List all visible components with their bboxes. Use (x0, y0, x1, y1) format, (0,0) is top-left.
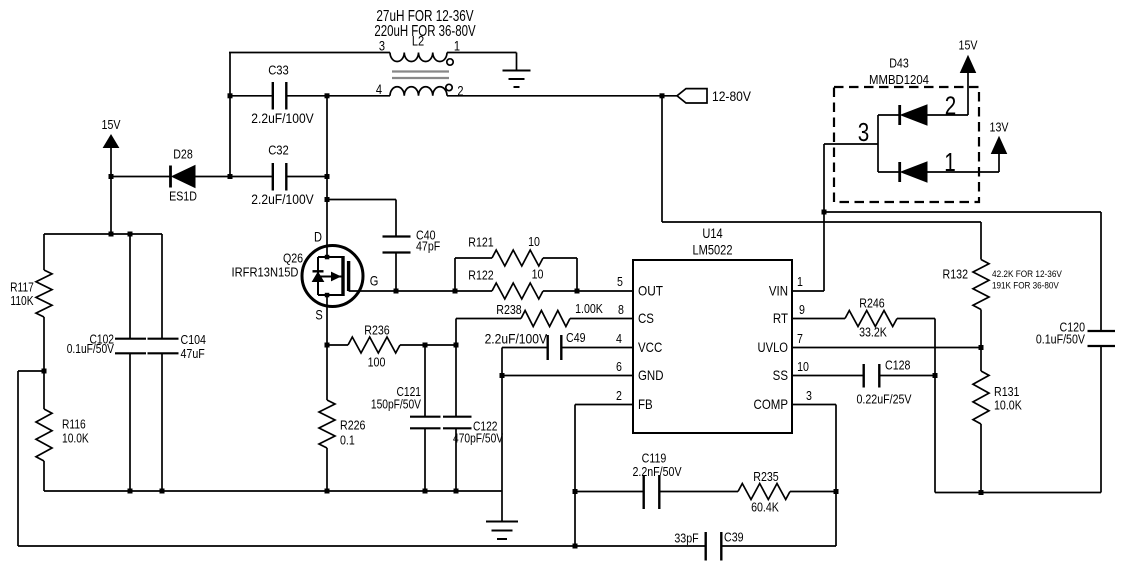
svg-text:OUT: OUT (638, 282, 663, 298)
wire: FB pin line (575, 404, 633, 406)
svg-text:0.1: 0.1 (340, 432, 355, 447)
svg-text:100: 100 (368, 354, 386, 369)
svg-text:2.2uF/100V: 2.2uF/100V (251, 191, 314, 207)
svg-text:6: 6 (616, 359, 622, 374)
svg-text:110K: 110K (10, 295, 34, 308)
bottom right ground rail (935, 492, 1101, 494)
svg-text:R238: R238 (496, 302, 522, 317)
wire: RT line (792, 318, 845, 320)
svg-text:RT: RT (773, 310, 788, 326)
D43 lower diode (pin 1) (878, 171, 900, 173)
dual diode D43 MMBD1204 dashed box (834, 87, 979, 202)
capacitor C121 150pF/50V (424, 345, 426, 416)
svg-text:0.22uF/25V: 0.22uF/25V (856, 391, 911, 406)
D43 upper diode (pin 2) (878, 114, 900, 116)
capacitor C104 47uF (161, 234, 163, 338)
wire: L2 pin2 to 12-80V tag (447, 95, 677, 97)
capacitor C128 0.22uF/25V (863, 364, 865, 388)
svg-text:60.4K: 60.4K (751, 499, 779, 514)
left top rail (44, 233, 162, 235)
svg-text:2.2uF/100V: 2.2uF/100V (485, 331, 548, 347)
svg-text:S: S (315, 307, 322, 322)
svg-text:2.2nF/50V: 2.2nF/50V (632, 464, 681, 479)
power symbol 15V (left) (104, 135, 119, 148)
capacitor C120 0.1uF/50V (1088, 330, 1116, 332)
svg-text:191K FOR 36-80V: 191K FOR 36-80V (992, 280, 1059, 291)
resistor R132 (980, 222, 982, 260)
wire: D43 pin 3 to VIN (824, 143, 878, 145)
svg-text:VCC: VCC (638, 339, 662, 355)
resistor R116 10.0K (36, 409, 52, 461)
svg-text:R121: R121 (468, 234, 494, 249)
svg-text:220uH FOR 36-80V: 220uH FOR 36-80V (374, 22, 476, 39)
svg-text:10: 10 (528, 234, 540, 249)
svg-text:CS: CS (638, 310, 654, 326)
L2 core lines (392, 70, 449, 72)
svg-text:0.1uF/50V: 0.1uF/50V (1036, 331, 1085, 346)
resistor R235 60.4K (738, 484, 790, 500)
svg-text:7: 7 (797, 331, 803, 346)
svg-text:C33: C33 (268, 63, 289, 78)
svg-text:GND: GND (638, 367, 664, 383)
svg-text:2.2uF/100V: 2.2uF/100V (251, 110, 314, 126)
svg-text:8: 8 (618, 302, 624, 317)
wire: gate line to OUT (349, 290, 492, 292)
svg-text:12-80V: 12-80V (712, 88, 751, 104)
svg-text:C39: C39 (724, 529, 744, 544)
svg-text:150pF/50V: 150pF/50V (371, 399, 421, 412)
svg-text:R117: R117 (10, 282, 34, 295)
ground symbol (main) (501, 491, 503, 522)
L2 phase dot pin 1 (447, 59, 453, 65)
svg-text:13V: 13V (990, 119, 1009, 134)
wire: SS line (792, 375, 863, 377)
svg-text:1: 1 (454, 38, 460, 53)
svg-text:10: 10 (797, 359, 809, 374)
svg-text:33.2K: 33.2K (859, 324, 887, 339)
svg-text:UVLO: UVLO (758, 340, 789, 355)
resistor R226 0.1 (319, 400, 335, 448)
svg-text:C32: C32 (268, 143, 289, 158)
svg-text:3: 3 (379, 38, 385, 53)
svg-text:C49: C49 (566, 330, 586, 345)
capacitor C102 0.1uF/50V (129, 234, 131, 338)
svg-text:10.0K: 10.0K (62, 433, 89, 446)
svg-text:1: 1 (944, 148, 955, 177)
svg-text:MMBD1204: MMBD1204 (869, 72, 929, 87)
power symbol 13V (992, 137, 1007, 154)
svg-text:15V: 15V (102, 117, 121, 132)
svg-text:ES1D: ES1D (169, 188, 197, 203)
svg-text:G: G (370, 273, 379, 288)
wire: FB comp network (575, 491, 643, 493)
svg-text:D28: D28 (173, 146, 193, 161)
wire: GND pin line (502, 375, 633, 377)
capacitor C33 (272, 82, 274, 110)
svg-text:10.0K: 10.0K (994, 397, 1022, 412)
svg-text:0.1uF/50V: 0.1uF/50V (67, 343, 115, 356)
wire: 12-80V node to R132 (661, 96, 663, 222)
svg-text:R116: R116 (62, 419, 86, 432)
wire: vertical left of C33/C32 (229, 53, 231, 177)
Q26 body diode (313, 270, 324, 272)
wire: C33 line (230, 95, 272, 97)
resistor R117 110K (43, 234, 45, 270)
resistor R238 1.00K (456, 318, 521, 320)
capacitor C122 470pF/50V (455, 319, 457, 417)
resistor R246 33.2K (845, 311, 897, 327)
wire: VIN node to C120 (824, 211, 1101, 213)
svg-text:R122: R122 (468, 267, 493, 282)
svg-text:COMP: COMP (754, 396, 788, 412)
svg-text:47pF: 47pF (416, 238, 440, 253)
bottom ground rail (44, 490, 502, 492)
wire: VIN line (792, 290, 824, 292)
svg-text:C121: C121 (397, 386, 421, 399)
wire: COMP line (792, 404, 836, 406)
resistor R236 100 (348, 337, 400, 353)
wire: D28 line (111, 176, 171, 178)
svg-text:5: 5 (617, 274, 623, 289)
svg-text:47uF: 47uF (181, 346, 205, 361)
capacitor C39 33pF (705, 532, 707, 561)
svg-text:D: D (314, 229, 322, 244)
resistor R131 10.0K (973, 371, 989, 424)
capacitor C40 47pF (383, 235, 411, 237)
resistor R121 10 (parallel) (454, 258, 456, 291)
svg-text:R132: R132 (943, 266, 968, 281)
svg-text:IRFR13N15D: IRFR13N15D (232, 265, 299, 280)
svg-text:L2: L2 (412, 33, 424, 48)
svg-text:470pF/50V: 470pF/50V (453, 433, 503, 446)
svg-text:1.00K: 1.00K (575, 301, 603, 316)
wire: UVLO line (792, 347, 981, 349)
Q26 source arrow (318, 276, 343, 278)
svg-text:R226: R226 (340, 417, 366, 432)
svg-text:9: 9 (799, 302, 805, 317)
svg-text:D43: D43 (889, 55, 909, 70)
svg-text:3: 3 (858, 118, 869, 147)
transistor Q26 IRFR13N15D (N-MOSFET) (302, 246, 363, 307)
wire: top wire node to L2 pin 3 (229, 52, 390, 54)
inductor L2 bottom winding (pins 4-2) (390, 87, 447, 96)
connector tag 12-80V (677, 89, 707, 103)
wire: source vertical (326, 295, 328, 400)
resistor R122 10 (492, 283, 543, 299)
bottom feedback wire (18, 545, 705, 547)
svg-text:2: 2 (945, 91, 956, 120)
capacitor C119 2.2nF/50V (643, 475, 645, 509)
wire: divider tap (18, 370, 44, 372)
wire: C40 branch (327, 199, 396, 201)
wire: L2 pin1 to ground (447, 52, 517, 54)
Q26 channel bar (341, 256, 344, 296)
wire: drain vertical (326, 96, 328, 257)
capacitor C49 2.2uF/100V (502, 347, 547, 349)
Q26 gate bar (347, 261, 350, 291)
IC U14 LM5022 (633, 260, 792, 433)
svg-text:15V: 15V (959, 37, 978, 52)
svg-text:VIN: VIN (769, 282, 788, 298)
svg-text:R235: R235 (753, 469, 779, 484)
svg-text:42.2K FOR 12-36V: 42.2K FOR 12-36V (992, 268, 1062, 279)
svg-text:R236: R236 (364, 322, 390, 337)
wire: ground vertical (VCC/GND) (501, 348, 503, 492)
L2 phase dot pin 2 (446, 84, 452, 90)
power symbol 15V (right) (961, 56, 976, 73)
svg-text:33pF: 33pF (674, 530, 698, 545)
D43 common cathode vertical (877, 115, 879, 172)
svg-text:FB: FB (638, 396, 653, 412)
svg-text:4: 4 (616, 331, 622, 346)
diode D28 ES1D (169, 166, 172, 188)
capacitor C32 (272, 163, 274, 191)
svg-text:R246: R246 (859, 295, 885, 310)
svg-text:2: 2 (616, 388, 622, 403)
inductor L2 top winding (pins 3-1) (390, 53, 447, 62)
svg-text:U14: U14 (702, 226, 722, 241)
svg-text:LM5022: LM5022 (693, 242, 733, 257)
svg-text:SS: SS (773, 367, 788, 383)
svg-text:3: 3 (806, 388, 812, 403)
svg-text:1: 1 (797, 274, 803, 289)
svg-text:Q26: Q26 (283, 250, 303, 265)
svg-text:10: 10 (532, 266, 544, 281)
wire: 15V rail down (110, 147, 112, 234)
svg-text:C128: C128 (885, 357, 911, 372)
svg-text:C104: C104 (181, 332, 207, 347)
ground symbol near L2 (516, 53, 518, 71)
